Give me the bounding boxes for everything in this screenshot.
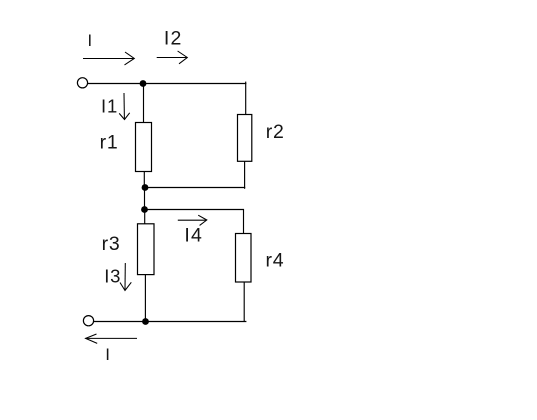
node B (junction between r1/r2 and lower section) <box>142 184 149 191</box>
svg-text:I: I <box>88 32 93 50</box>
wire r4 down to bottom wire <box>243 282 245 322</box>
resistor r3 <box>138 224 155 275</box>
current arrow I return (pointing left) <box>85 334 137 343</box>
wire top corner down to r2 <box>245 82 247 115</box>
wire r2 down to branch wire <box>244 161 246 189</box>
wire node B to r2 branch (horizontal) <box>145 187 245 189</box>
resistor r4 <box>236 234 252 283</box>
terminal top-left (open circle input) <box>77 78 87 88</box>
svg-text:I3: I3 <box>104 266 121 287</box>
resistor r1 <box>136 123 152 172</box>
wire node C down to r3 <box>144 210 146 225</box>
wire r1 to node B <box>143 172 145 188</box>
svg-text:I2: I2 <box>164 28 183 50</box>
resistor r2 <box>238 115 252 162</box>
svg-text:I: I <box>105 345 110 364</box>
svg-text:I4: I4 <box>184 225 203 247</box>
current arrow I4 (pointing right) <box>178 215 207 225</box>
node A (junction dot, top) <box>140 80 147 87</box>
current arrow I (pointing right) <box>83 52 134 65</box>
svg-text:r2: r2 <box>266 121 285 143</box>
current arrow I2 (pointing right) <box>157 51 188 64</box>
wire node B to node C <box>144 188 146 210</box>
node D (junction dot, bottom) <box>142 318 149 325</box>
svg-text:r1: r1 <box>100 132 119 154</box>
terminal bottom-left (open circle return) <box>83 316 93 326</box>
current arrow I1 (pointing down) <box>119 93 130 120</box>
svg-text:r4: r4 <box>266 250 285 272</box>
svg-text:I1: I1 <box>101 95 118 116</box>
wire r3 down to node D <box>144 275 146 322</box>
node C (junction at top of r3 / r4 branch) <box>141 206 148 213</box>
wire node A down to r1 <box>143 84 145 123</box>
current arrow I3 (pointing down) <box>120 263 131 291</box>
svg-text:r3: r3 <box>102 233 121 255</box>
wire node C to r4 branch (horizontal then down) <box>145 210 244 234</box>
wire bottom (terminal to r4 branch) <box>94 321 246 323</box>
wire node A to top-right corner <box>143 83 246 85</box>
wire terminal to node A <box>88 83 143 85</box>
